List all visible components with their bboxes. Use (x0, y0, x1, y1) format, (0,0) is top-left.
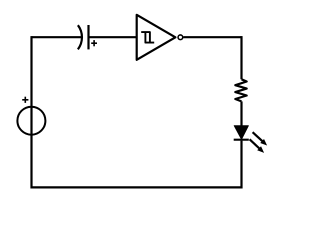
LED emission arrow 1 (253, 132, 268, 145)
voltage source V1 (circle) (17, 107, 45, 135)
capacitor polarity label + (91, 40, 97, 46)
capacitor C1 (polarized, curved negative plate) (78, 25, 89, 49)
wire: bottom (32, 186, 242, 188)
LED emission arrow 2 (250, 139, 265, 153)
voltage source polarity label + (22, 97, 28, 103)
inverter output bubble (178, 35, 183, 40)
wire: left side (30, 36, 32, 188)
hysteresis symbol inside inverter (141, 32, 154, 43)
wire top-left: from top-left corner to capacitor left plate (32, 36, 82, 38)
wire: inverter output to top-right corner (183, 36, 241, 38)
LED D1 (diode triangle) (234, 126, 248, 140)
resistor R1 (235, 79, 246, 101)
wire: LED to bottom-right corner (240, 141, 242, 189)
wire: resistor to LED (240, 101, 242, 125)
LED cathode bar (234, 139, 249, 141)
wire: capacitor to inverter input (89, 36, 137, 38)
wire: right side down to resistor (240, 36, 242, 79)
inverter U1 (Schmitt-trigger NOT gate) triangle (137, 15, 176, 60)
